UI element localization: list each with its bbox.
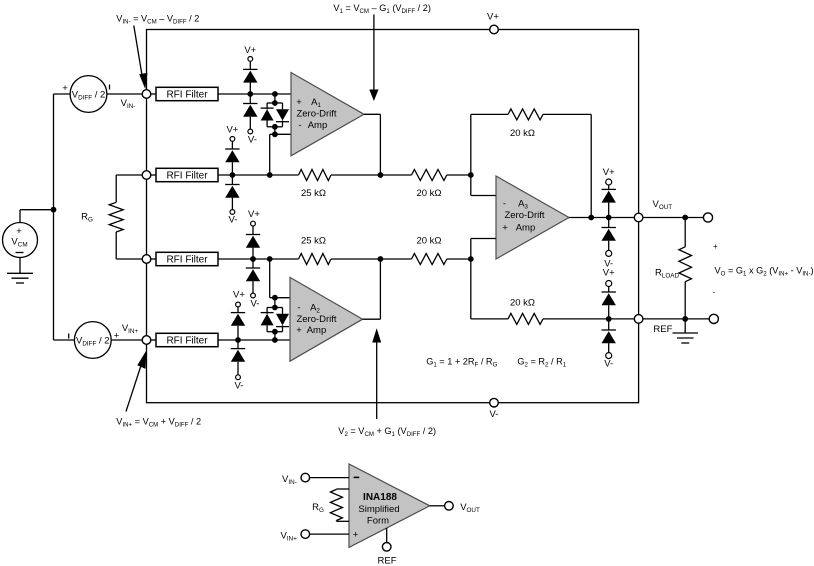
wire VDIFF/2 top left lead xyxy=(54,93,71,95)
pin RG2 xyxy=(142,255,151,264)
terminal REF external xyxy=(709,314,718,323)
voltage source VDIFF/2 (bottom) xyxy=(69,322,120,359)
svg-text:RFI Filter: RFI Filter xyxy=(166,255,208,266)
antiparallel diode pair A2 inputs xyxy=(261,295,289,340)
pin VOUT xyxy=(634,199,672,222)
wire pin to RFI Filter 2 xyxy=(151,174,156,176)
formula G1 xyxy=(426,357,497,369)
svg-text:VIN-: VIN- xyxy=(121,98,136,110)
svg-text:Form: Form xyxy=(367,516,389,527)
wire feedback top xyxy=(471,114,591,217)
svg-text:20 kΩ: 20 kΩ xyxy=(510,128,535,139)
resistor RG (simplified) xyxy=(312,489,349,521)
svg-text:Zero-Drift: Zero-Drift xyxy=(296,109,336,120)
pin V- supply xyxy=(490,398,499,420)
junction row3 A2 inverting riser xyxy=(267,256,273,262)
svg-text:20 kΩ: 20 kΩ xyxy=(416,188,441,199)
RFI Filter box 1 xyxy=(156,87,218,100)
svg-text:G1 = 1 + 2RF / RG: G1 = 1 + 2RF / RG xyxy=(426,357,497,369)
svg-text:V+: V+ xyxy=(603,167,615,178)
svg-text:-: - xyxy=(297,302,300,313)
svg-text:REF: REF xyxy=(653,324,672,335)
svg-text:+: + xyxy=(16,226,22,237)
resistor 20 kOhm (R1 top) xyxy=(412,170,447,200)
RFI Filter box 2 xyxy=(156,168,218,181)
annotation V1 equation with arrow xyxy=(333,3,431,101)
svg-text:20 kΩ: 20 kΩ xyxy=(416,236,441,247)
svg-text:-: - xyxy=(298,120,301,131)
svg-text:VIN-: VIN- xyxy=(282,474,297,486)
wire RFI4 output to A2 noninverting input xyxy=(218,339,290,341)
svg-text:VIN+ = VCM + VDIFF / 2: VIN+ = VCM + VDIFF / 2 xyxy=(116,417,201,429)
svg-text:REF: REF xyxy=(378,556,397,566)
wire A1 inverting input line xyxy=(270,134,291,175)
wire RFI2 output to 25k resistor xyxy=(218,174,299,176)
svg-text:RFI Filter: RFI Filter xyxy=(166,336,208,347)
svg-text:25 kΩ: 25 kΩ xyxy=(301,188,326,199)
junction row2 A1 inverting riser xyxy=(267,172,273,178)
pin RG1 xyxy=(142,171,151,180)
svg-text:-: - xyxy=(713,288,716,297)
wire RFI1 output to A1 noninverting input xyxy=(218,93,291,95)
junction REF clamp node xyxy=(606,316,612,322)
node VIN- label xyxy=(121,98,136,110)
op-amp A2 Zero-Drift xyxy=(290,277,363,361)
wire A3 output to VOUT pin xyxy=(569,217,634,219)
junction A1 output node xyxy=(378,172,384,178)
svg-text:VDIFF / 2: VDIFF / 2 xyxy=(72,90,106,102)
diode clamp stack row4 (V+ / V-) xyxy=(231,290,246,392)
resistor RG (external gain resistor) xyxy=(81,175,142,259)
svg-text:VIN- = VCM – VDIFF / 2: VIN- = VCM – VDIFF / 2 xyxy=(116,14,199,26)
wire REF simplified xyxy=(386,528,388,543)
svg-text:+: + xyxy=(296,325,302,336)
svg-text:V-: V- xyxy=(229,215,238,226)
svg-text:VOUT: VOUT xyxy=(460,502,480,514)
wire VOUT external xyxy=(643,217,704,219)
svg-text:Zero-Drift: Zero-Drift xyxy=(296,314,336,325)
wire bus to VDIFF/2 bottom xyxy=(54,339,75,341)
svg-text:+: + xyxy=(713,242,718,251)
svg-text:-: - xyxy=(503,198,506,209)
junction row3 clamp xyxy=(250,256,256,262)
svg-text:Amp: Amp xyxy=(516,222,536,233)
svg-text:Amp: Amp xyxy=(308,120,328,131)
load polarity marks xyxy=(713,242,719,297)
wire left vertical bus xyxy=(53,94,55,340)
voltage source VCM xyxy=(3,223,38,258)
svg-text:V+: V+ xyxy=(603,268,615,279)
annotation VIN+ equation with arrow xyxy=(116,351,201,429)
wire VOUT simplified xyxy=(430,505,445,507)
junction VCM tap xyxy=(51,207,57,213)
wire chip boundary rectangle xyxy=(147,30,639,403)
op-amp A1 Zero-Drift xyxy=(291,73,364,156)
wire A3 noninverting input xyxy=(471,239,496,260)
annotation V2 equation with arrow xyxy=(338,328,436,438)
op-amp INA188 simplified form xyxy=(349,464,430,547)
wire VIN+ to simplified amp xyxy=(310,533,349,535)
junction row4 pair xyxy=(272,337,278,343)
terminal VOUT (simplified) xyxy=(445,502,480,515)
svg-text:RFI Filter: RFI Filter xyxy=(166,171,208,182)
resistor 20 kOhm (R2 feedback top) xyxy=(508,109,543,139)
svg-text:V+: V+ xyxy=(248,209,260,220)
svg-text:+: + xyxy=(62,83,68,94)
resistor 25 kOhm (A1 feedback) xyxy=(299,170,332,200)
ground under VCM xyxy=(7,273,33,283)
wire VDIFF/2 bottom to VIN+ pin xyxy=(111,339,142,341)
svg-text:VDIFF / 2: VDIFF / 2 xyxy=(76,336,110,348)
svg-text:Amp: Amp xyxy=(307,325,327,336)
op-amp A3 Zero-Drift xyxy=(496,176,569,259)
wire VIN- to simplified amp xyxy=(310,477,349,479)
annotation VIN- equation with arrow xyxy=(116,14,199,90)
terminal VOUT external xyxy=(703,213,712,222)
svg-text:VIN+: VIN+ xyxy=(122,323,139,335)
wire VCM to ground xyxy=(19,258,21,274)
junction output clamp node xyxy=(606,215,612,221)
wire pin to RFI Filter 1 xyxy=(151,93,156,95)
antiparallel diode pair A1 inputs xyxy=(261,94,289,137)
diode clamp stack row3 (V+ / V-) xyxy=(246,209,261,310)
svg-text:+: + xyxy=(353,529,359,540)
formula VO xyxy=(715,266,814,278)
svg-text:V-: V- xyxy=(490,409,499,420)
wire pin to RFI Filter 3 xyxy=(151,258,156,260)
diode clamp stack VOUT (V+ / V-) xyxy=(602,167,616,270)
wire A3 inverting input xyxy=(471,175,496,196)
junction row1 pair xyxy=(272,91,278,97)
svg-text:V1 = VCM – G1 (VDIFF / 2): V1 = VCM – G1 (VDIFF / 2) xyxy=(333,3,431,15)
RFI Filter box 4 xyxy=(156,333,218,346)
svg-text:V-: V- xyxy=(251,299,260,310)
wire VCM to bus xyxy=(20,210,54,223)
svg-text:Simplified: Simplified xyxy=(358,504,399,515)
svg-text:25 kΩ: 25 kΩ xyxy=(301,236,326,247)
wire 25k to node xyxy=(331,174,380,176)
resistor 20 kOhm (R2 feedback bottom to REF) xyxy=(508,298,543,325)
wire REF external xyxy=(643,318,710,320)
junction A3 noninverting node xyxy=(468,256,474,262)
svg-text:+: + xyxy=(296,97,302,108)
svg-text:V-: V- xyxy=(604,359,613,370)
terminal VIN- (simplified) xyxy=(282,473,310,485)
junction REF ground xyxy=(682,316,688,322)
wire feedback bottom xyxy=(471,259,635,319)
svg-text:VOUT: VOUT xyxy=(653,199,673,211)
svg-text:RG: RG xyxy=(81,212,93,224)
RFI Filter box 3 xyxy=(156,252,218,265)
svg-text:V+: V+ xyxy=(226,125,238,136)
svg-text:RLOAD: RLOAD xyxy=(655,267,679,279)
pin V+ supply xyxy=(487,12,499,34)
resistor 20 kOhm (R1 bottom) xyxy=(412,236,447,265)
junction row1 clamp xyxy=(247,91,253,97)
svg-text:Zero-Drift: Zero-Drift xyxy=(504,210,544,221)
wire A2 inverting input line xyxy=(270,259,290,298)
diode clamp stack row2 (V+ / V-) xyxy=(225,125,239,226)
formula G2 xyxy=(517,357,566,369)
svg-text:20 kΩ: 20 kΩ xyxy=(510,298,535,309)
svg-text:G2 = R2 / R1: G2 = R2 / R1 xyxy=(517,357,566,369)
terminal VIN+ (simplified) xyxy=(280,530,309,543)
wire 20k to A3 noninverting node xyxy=(447,258,471,260)
wire node to 20k (row3) xyxy=(380,258,411,260)
svg-text:V+: V+ xyxy=(487,12,499,23)
wire RFI3 output to 25k resistor xyxy=(218,258,299,260)
voltage source VDIFF/2 (top) xyxy=(62,76,109,113)
pin VIN+ xyxy=(142,336,151,345)
svg-text:VO = G1 x G2 (VIN+ - VIN-): VO = G1 x G2 (VIN+ - VIN-) xyxy=(715,266,814,278)
resistor 25 kOhm (A2 feedback) xyxy=(299,236,332,265)
junction feedback to output xyxy=(588,215,594,221)
svg-text:VIN+: VIN+ xyxy=(280,530,297,542)
wire 25k to node (row3) xyxy=(331,258,380,260)
diode clamp stack REF (V+ / V-) xyxy=(602,268,616,370)
junction A2 output node xyxy=(378,256,384,262)
node VIN+ label xyxy=(122,323,139,335)
svg-text:V-: V- xyxy=(248,135,257,146)
svg-text:V+: V+ xyxy=(233,290,245,301)
ground at REF xyxy=(673,319,699,343)
wire node to 20k xyxy=(380,174,411,176)
resistor RLOAD xyxy=(655,218,692,319)
pin VIN- xyxy=(142,90,151,99)
diode clamp stack row1 (V+ / V-) xyxy=(243,45,257,146)
wire A2 output xyxy=(363,259,381,319)
pin REF xyxy=(634,315,672,335)
wire A1 output xyxy=(364,114,380,175)
svg-text:V+: V+ xyxy=(244,45,256,56)
svg-text:INA188: INA188 xyxy=(363,492,397,503)
junction row4 clamp xyxy=(235,337,241,343)
terminal REF (simplified) xyxy=(378,543,397,566)
svg-text:V-: V- xyxy=(235,381,244,392)
svg-text:VCM: VCM xyxy=(11,237,27,249)
wire VDIFF/2 top to VIN- pin xyxy=(107,93,142,95)
wire 20k to A3 inverting node xyxy=(447,174,471,176)
wire pin to RFI Filter 4 xyxy=(151,339,156,341)
junction RLOAD top xyxy=(682,215,688,221)
svg-text:RG: RG xyxy=(312,502,324,514)
junction A3 inverting node xyxy=(468,172,474,178)
svg-text:+: + xyxy=(502,222,508,233)
junction row2 clamp xyxy=(230,172,236,178)
svg-text:V2 = VCM + G1 (VDIFF / 2): V2 = VCM + G1 (VDIFF / 2) xyxy=(338,426,436,438)
svg-text:RFI Filter: RFI Filter xyxy=(166,90,208,101)
